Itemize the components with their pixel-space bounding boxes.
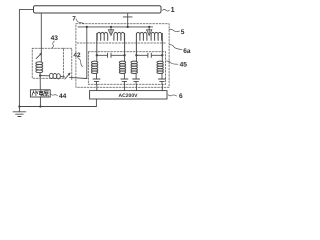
AC source box 6 (90, 91, 167, 99)
leader to 7 (76, 19, 84, 24)
svg-text:42: 42 (73, 52, 81, 59)
node in box 43 (39, 74, 41, 76)
choke 1 core arrow (110, 26, 112, 28)
X capacitor 2 plates (148, 53, 151, 57)
box 43 dashed (32, 48, 63, 78)
wire bar to transformer box 43 (40, 13, 42, 52)
kanji gen (43, 91, 48, 96)
svg-text:AC200V: AC200V (119, 93, 139, 99)
capacitor unit box 45 dashed (88, 52, 165, 85)
node riser (86, 26, 88, 28)
branch 2 capacitor to ground (121, 79, 128, 84)
branch 1 capacitor to ground (93, 79, 100, 84)
svg-text:5: 5 (181, 29, 185, 36)
choke 2 core arrow (148, 26, 150, 28)
kanji den (39, 91, 43, 96)
X capacitor pair 2 wire (136, 54, 162, 56)
branch 3 coil (135, 55, 137, 78)
arrow tap symbol in box 43 (36, 53, 41, 58)
AC200V text (119, 93, 139, 99)
box 42 dashed (63, 48, 71, 79)
svg-text:1: 1 (171, 5, 175, 14)
leader to 5 (169, 29, 179, 31)
label 7 (72, 16, 76, 23)
svg-text:6: 6 (179, 93, 183, 100)
inductor in box 43 (40, 52, 42, 62)
label 6a (183, 48, 191, 55)
branch 4 capacitor to ground (158, 79, 165, 84)
node at external supply drop (39, 105, 41, 107)
busbar 1 (34, 6, 162, 13)
node branch1 (96, 54, 98, 56)
node branch3 (135, 54, 137, 56)
node branch2 (123, 54, 125, 56)
branch 3 capacitor to ground (133, 79, 140, 84)
leader to 43 (52, 41, 55, 48)
terminal from busbar (123, 13, 132, 27)
choke 2 winding C (136, 32, 147, 55)
branch 4 coil (161, 55, 163, 78)
leader to 6 (168, 95, 177, 96)
ground bottom wire (19, 99, 96, 107)
kanji gai (32, 91, 37, 96)
choke 1 winding A (97, 32, 108, 55)
wire to external supply box 44 (39, 76, 41, 107)
label 1 (171, 5, 175, 14)
riser from box 43 output to bus wire (86, 27, 88, 79)
shield line 6a dashed (77, 42, 165, 44)
svg-text:7: 7 (72, 16, 76, 23)
leader to 1 (163, 9, 170, 11)
label 5 (181, 29, 185, 36)
X capacitor 1 plates (108, 53, 111, 57)
svg-text:44: 44 (59, 93, 67, 100)
noise filter box 5 dashed (76, 24, 169, 88)
leader to 44 (50, 94, 57, 96)
wires filter to source box (97, 84, 163, 90)
svg-text:6a: 6a (183, 48, 191, 55)
svg-text:45: 45 (180, 62, 188, 69)
series coil from node (40, 75, 49, 77)
arrow connector 42 symbol (65, 73, 70, 79)
node terminal (127, 26, 129, 28)
branch 2 coil (123, 55, 125, 78)
leader to 42 (78, 58, 83, 67)
label 44 (59, 93, 67, 100)
internal bus wire (78, 26, 153, 28)
label 45 (180, 62, 188, 69)
X capacitor pair 1 wire (97, 54, 125, 56)
choke 2 winding D (151, 32, 162, 55)
choke 1 winding B (114, 32, 125, 55)
node branch4 (161, 54, 163, 56)
node at left rail bottom (18, 105, 20, 107)
label 43 (51, 35, 59, 42)
earth ground (13, 107, 26, 117)
branch 1 coil (96, 55, 98, 78)
label 42 (73, 52, 81, 59)
wire left rail (19, 10, 33, 107)
leader to 45 (167, 61, 178, 64)
leader to 6a (170, 45, 183, 50)
external supply box 44 (30, 90, 50, 97)
label 6 (179, 93, 183, 100)
